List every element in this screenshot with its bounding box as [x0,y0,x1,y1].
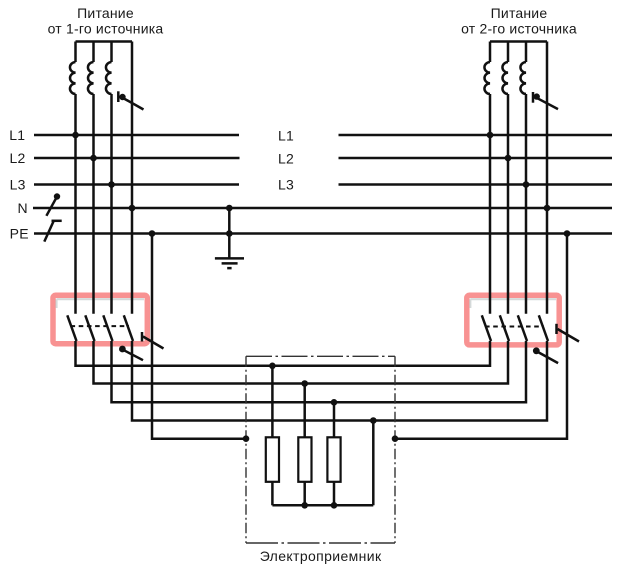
node: load bottom bus junction R3 [331,502,338,509]
breaker QF1 linkage (dashed) [71,325,130,327]
node: ground PE tap [226,230,233,237]
highlight box right inner shadow [470,299,556,308]
highlight box left breaker QF1 [53,295,147,343]
node: source1 L2 tap [90,155,97,162]
breaker QF1 pole 1 blade [67,315,76,341]
node: source1 L3 tap [108,181,115,188]
ground symbol [215,258,244,268]
breaker QF2 linkage (dashed) [485,326,544,328]
wire L2 left drop and run [94,341,509,384]
svg-text:Электроприемник: Электроприемник [260,548,382,564]
resistor R3 body [327,437,340,482]
source 1 winding W1 [70,42,76,314]
breaker QF2 marker slash [538,352,558,363]
svg-text:L3: L3 [278,177,294,193]
source 2 top bus [490,40,547,43]
svg-text:L1: L1 [278,128,294,144]
breaker QF2 trip arrow [558,329,580,342]
source 2 neutral marker bar [532,92,535,103]
bus L2 left segment [34,157,240,160]
svg-text:от 2-го источника: от 2-го источника [461,21,577,37]
svg-text:L1: L1 [9,127,25,143]
breaker QF2 pole 1 blade [482,315,491,341]
breaker QF1 trip arrow [143,337,164,349]
bus L3 right segment [339,183,613,186]
resistor R3 lead top [333,402,336,437]
node: ground N tap [226,205,233,212]
PE marker at label (slash) [44,221,53,242]
svg-text:L3: L3 [10,177,26,193]
resistor R1 lead bottom [271,482,274,506]
bus L3 left segment [34,183,239,186]
source 1 top bus [76,40,133,43]
source 2 winding W1 [484,42,490,314]
highlight box left inner shadow [57,299,145,308]
bus L1 right segment [339,134,613,137]
highlight box right breaker QF2 [467,295,559,345]
resistor R2 body [298,437,311,482]
node: source2 PE tap [564,230,571,237]
breaker QF2 pole 2 blade [500,315,509,341]
svg-text:N: N [18,200,28,216]
svg-text:Питание: Питание [77,5,134,21]
breaker QF1 pole 2 blade [85,315,94,341]
node: source2 N tap [544,205,551,212]
resistor R2 lead bottom [303,482,306,506]
source 2 neutral marker dot [534,93,540,99]
node: load L3 tap [331,399,338,406]
node: PE bond right of enclosure [392,435,399,442]
load enclosure left edge [245,356,247,543]
node: source1 N tap [129,205,136,212]
node: load L1 tap [269,363,276,370]
source 1 neutral marker dot [119,94,125,100]
load enclosure right edge [394,356,396,543]
N label marker dot [54,193,60,199]
wire PE left drop and run to enclosure [152,234,246,439]
node: source2 L3 tap [523,181,530,188]
breaker QF2 trip bar [555,324,558,334]
breaker QF1 pole 3 blade [103,315,112,341]
node: load L2 tap [301,380,308,387]
PE marker at label (bar) [52,220,62,223]
node: source1 PE tap [149,230,156,237]
resistor R1 lead top [271,366,274,438]
source 1 winding W2 [88,42,94,314]
svg-text:Питание: Питание [491,5,548,21]
N marker at label (slash) [46,198,56,216]
wire PE right drop and run to enclosure [395,234,567,439]
node: source2 L2 tap [505,155,512,162]
resistor R3 lead bottom [333,482,336,506]
breaker QF1 trip bar [141,332,144,342]
node: PE bond left of enclosure [243,435,250,442]
breaker QF1 pole 4 blade [124,315,133,341]
svg-text:L2: L2 [10,150,26,166]
wire L3 left drop and run [112,341,527,402]
ground branch wire [228,208,231,258]
svg-text:L2: L2 [278,150,294,166]
node: load N tap [370,417,377,424]
node: source2 L1 tap [487,132,494,139]
breaker QF1 marker dot [119,346,126,353]
source 1 neutral conductor [131,42,134,314]
source 1 winding W3 [106,42,112,314]
load enclosure bottom edge [246,542,395,544]
bus L1 left segment [34,134,239,137]
node: load bottom bus junction R2 [301,502,308,509]
bus PE [34,232,612,235]
breaker QF2 marker dot [533,347,540,354]
load bottom bus [272,504,373,507]
source 2 winding W3 [520,42,526,314]
breaker QF2 pole 4 blade [539,315,548,341]
resistor R2 lead top [303,384,306,438]
source 2 neutral marker slash [538,98,559,109]
source 1 neutral marker bar [117,91,120,102]
resistor R1 body [266,437,279,482]
load neutral drop [372,421,375,506]
bus L2 right segment [339,157,613,160]
wire N left drop and run [132,341,547,421]
svg-text:PE: PE [10,226,29,242]
source 2 neutral conductor [546,42,549,314]
breaker QF2 pole 3 blade [518,315,527,341]
bus N [33,207,612,210]
source 1 neutral marker slash [123,98,144,110]
wire L1 left drop and run [76,341,491,366]
breaker QF1 marker slash [124,350,143,360]
load enclosure (dash-dot box) [246,355,395,357]
node: source1 L1 tap [72,132,79,139]
source 2 winding W2 [502,42,508,314]
svg-text:от 1-го источника: от 1-го источника [48,21,164,37]
